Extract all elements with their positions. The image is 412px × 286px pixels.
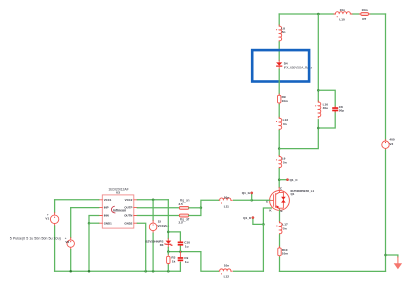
svg-text:Q1_C: Q1_C	[290, 178, 299, 182]
node top-branch junction	[317, 13, 320, 16]
wire emitter lead	[279, 210, 281, 221]
svg-text:Q1: Q1	[291, 192, 295, 196]
blue highlight box	[252, 50, 309, 81]
svg-text:INP: INP	[104, 206, 109, 210]
wire VCC2	[137, 199, 168, 201]
node rail V6	[69, 270, 72, 273]
svg-text:L12: L12	[224, 274, 230, 278]
wire zener branch vertical	[167, 200, 169, 239]
svg-text:Q1_G: Q1_G	[242, 191, 251, 195]
wire R10-rail	[279, 257, 281, 271]
inductor L11	[218, 195, 251, 208]
svg-text:V1: V1	[45, 216, 49, 220]
node rail R3	[167, 270, 170, 273]
wire C10-midline	[179, 246, 181, 251]
svg-text:5n: 5n	[283, 226, 287, 230]
wire zener-midline	[167, 247, 169, 251]
svg-text:VCC2: VCC2	[125, 198, 133, 202]
svg-text:10n: 10n	[340, 8, 345, 12]
svg-text:10m: 10m	[282, 252, 288, 256]
wire VCC1	[55, 199, 99, 201]
node Q1_C	[286, 178, 298, 182]
svg-text:U3: U3	[116, 191, 120, 195]
wire Q1_C stub	[279, 179, 286, 181]
diode D4	[276, 60, 313, 69]
svg-text:5n: 5n	[282, 30, 286, 34]
svg-text:D3: D3	[160, 243, 164, 247]
inductor L9	[276, 155, 287, 168]
source V2 400V	[382, 138, 395, 150]
resistor Rg_on	[178, 199, 189, 210]
node rail GND1	[88, 270, 91, 273]
node midline left	[167, 250, 170, 253]
transistor Q1	[266, 186, 315, 213]
svg-text:1u: 1u	[185, 260, 189, 264]
wire L17-R10	[279, 235, 281, 247]
wire Rg_on right	[189, 207, 201, 209]
svg-text:VCC1: VCC1	[104, 198, 112, 202]
inductor L16	[315, 101, 328, 118]
node Q1_K junction	[262, 223, 265, 226]
wire D4-R9	[278, 69, 280, 94]
svg-text:5 Pulse(0 5 1u 50n 50n 5u 10u): 5 Pulse(0 5 1u 50n 50n 5u 10u)	[10, 236, 61, 240]
svg-text:infineon: infineon	[113, 208, 126, 212]
source VCC2L3	[149, 200, 169, 271]
node L16 bottom	[317, 127, 320, 130]
svg-text:Q1_K: Q1_K	[243, 216, 252, 220]
node ground stub junction	[384, 254, 387, 257]
wire junction-L9	[278, 149, 280, 156]
node Q1_K	[243, 216, 254, 220]
source V6	[65, 208, 75, 272]
svg-text:V6: V6	[65, 240, 69, 244]
svg-text:1u: 1u	[185, 244, 189, 248]
wire switch-leg top	[278, 14, 280, 25]
svg-text:50p: 50p	[339, 109, 344, 113]
wire R3-rail	[167, 252, 169, 272]
svg-text:40u: 40u	[323, 106, 328, 110]
node L16 top	[317, 89, 320, 92]
svg-text:V2: V2	[389, 142, 393, 146]
wire K pin	[263, 208, 271, 224]
svg-text:L11: L11	[224, 204, 229, 208]
svg-text:INN: INN	[104, 214, 109, 218]
wire branch bottom horizontal	[279, 120, 318, 149]
svg-text:15: 15	[158, 220, 162, 224]
wire L9-QC junction	[278, 169, 280, 188]
wire INP	[71, 207, 99, 209]
svg-text:R7: R7	[362, 17, 366, 21]
wire L8-D4	[278, 42, 280, 60]
wire gate lead	[252, 199, 270, 201]
wire OUTP	[137, 207, 179, 209]
wire branch vertical top	[317, 14, 319, 101]
node INN/GND1	[88, 222, 91, 225]
svg-text:2.5: 2.5	[178, 221, 183, 225]
inductor L17	[276, 222, 288, 235]
wire right vertical upper	[385, 14, 387, 140]
node branch rejoin	[278, 147, 281, 150]
wire GND2	[137, 223, 145, 271]
node Q1_C junction	[278, 178, 281, 181]
ground	[394, 257, 402, 270]
wire right vertical lower	[385, 150, 387, 271]
inductor L12	[218, 264, 232, 279]
wire L11 left + up-jog	[201, 200, 219, 208]
resistor R7	[360, 8, 370, 21]
wire kelvin bottom rail left	[201, 252, 219, 272]
inductor L8	[276, 25, 285, 42]
capacitor C10	[178, 241, 191, 249]
resistor Rg_off	[178, 214, 189, 225]
svg-text:10n: 10n	[224, 264, 229, 268]
wire C10 branch	[168, 232, 180, 241]
node Q1_G	[242, 191, 253, 195]
svg-text:5n: 5n	[283, 160, 287, 164]
svg-text:L10: L10	[339, 18, 345, 22]
node gate junction	[250, 199, 253, 202]
wire top rail right	[370, 13, 386, 15]
svg-text:OUTN: OUTN	[124, 214, 132, 218]
wire OUTN	[137, 215, 179, 217]
wire Q1_G stub	[251, 194, 253, 200]
wire L13-junction	[278, 130, 280, 148]
inductor L13	[276, 117, 288, 130]
capacitor C9	[178, 252, 189, 264]
wire Rg_off right jog	[189, 208, 201, 216]
node VCC2 branch	[152, 199, 155, 202]
wire C8 branch	[318, 90, 335, 128]
wire INN jog	[89, 216, 99, 224]
svg-text:2.5: 2.5	[178, 202, 183, 206]
IC U3 1EDI20I12AF	[99, 188, 138, 228]
svg-text:0n: 0n	[283, 122, 287, 126]
svg-text:E: E	[281, 209, 283, 213]
wire ground stub	[386, 255, 398, 257]
source V1	[45, 200, 58, 271]
svg-text:10m: 10m	[361, 8, 367, 12]
svg-text:GND1: GND1	[104, 221, 112, 225]
resistor R10	[278, 247, 288, 258]
node rg junction	[200, 207, 203, 210]
wire C9-rail corner	[179, 263, 181, 272]
node C10 branch	[167, 231, 170, 234]
svg-text:10n: 10n	[224, 195, 229, 199]
resistor R9	[278, 94, 289, 104]
wire mid line	[168, 251, 201, 253]
wire GND1 down	[88, 223, 90, 271]
zener D3	[146, 239, 173, 248]
node midline C9	[179, 250, 182, 253]
capacitor C8	[332, 105, 344, 113]
resistor R3	[167, 254, 176, 265]
wire GND1	[89, 222, 99, 224]
wire top rail mid	[352, 13, 360, 15]
wire kelvin bottom rail right	[234, 270, 264, 272]
wire top rail	[279, 13, 334, 15]
wire ground rail	[55, 270, 181, 272]
node rail GND2	[144, 270, 147, 273]
svg-text:10m: 10m	[282, 99, 288, 103]
wire Q1_K stub	[253, 219, 264, 224]
inductor L10	[334, 8, 352, 22]
wire bottom power rail	[280, 270, 386, 272]
svg-text:1k: 1k	[172, 259, 176, 263]
node rail VCC2L3	[152, 270, 155, 273]
wire kelvin vertical	[262, 224, 264, 271]
wire R9-L13	[278, 104, 280, 117]
svg-text:GND2: GND2	[124, 221, 132, 225]
